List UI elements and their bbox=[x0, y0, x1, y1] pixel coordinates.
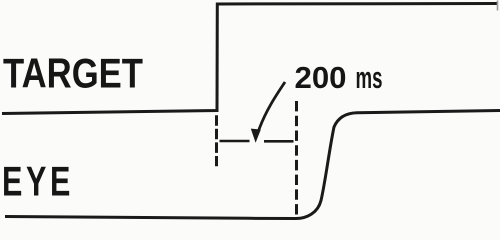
svg-text:TARGET: TARGET bbox=[3, 50, 143, 97]
svg-text:200: 200 bbox=[295, 61, 347, 95]
svg-text:ms: ms bbox=[356, 61, 383, 95]
svg-text:EYE: EYE bbox=[2, 158, 74, 205]
